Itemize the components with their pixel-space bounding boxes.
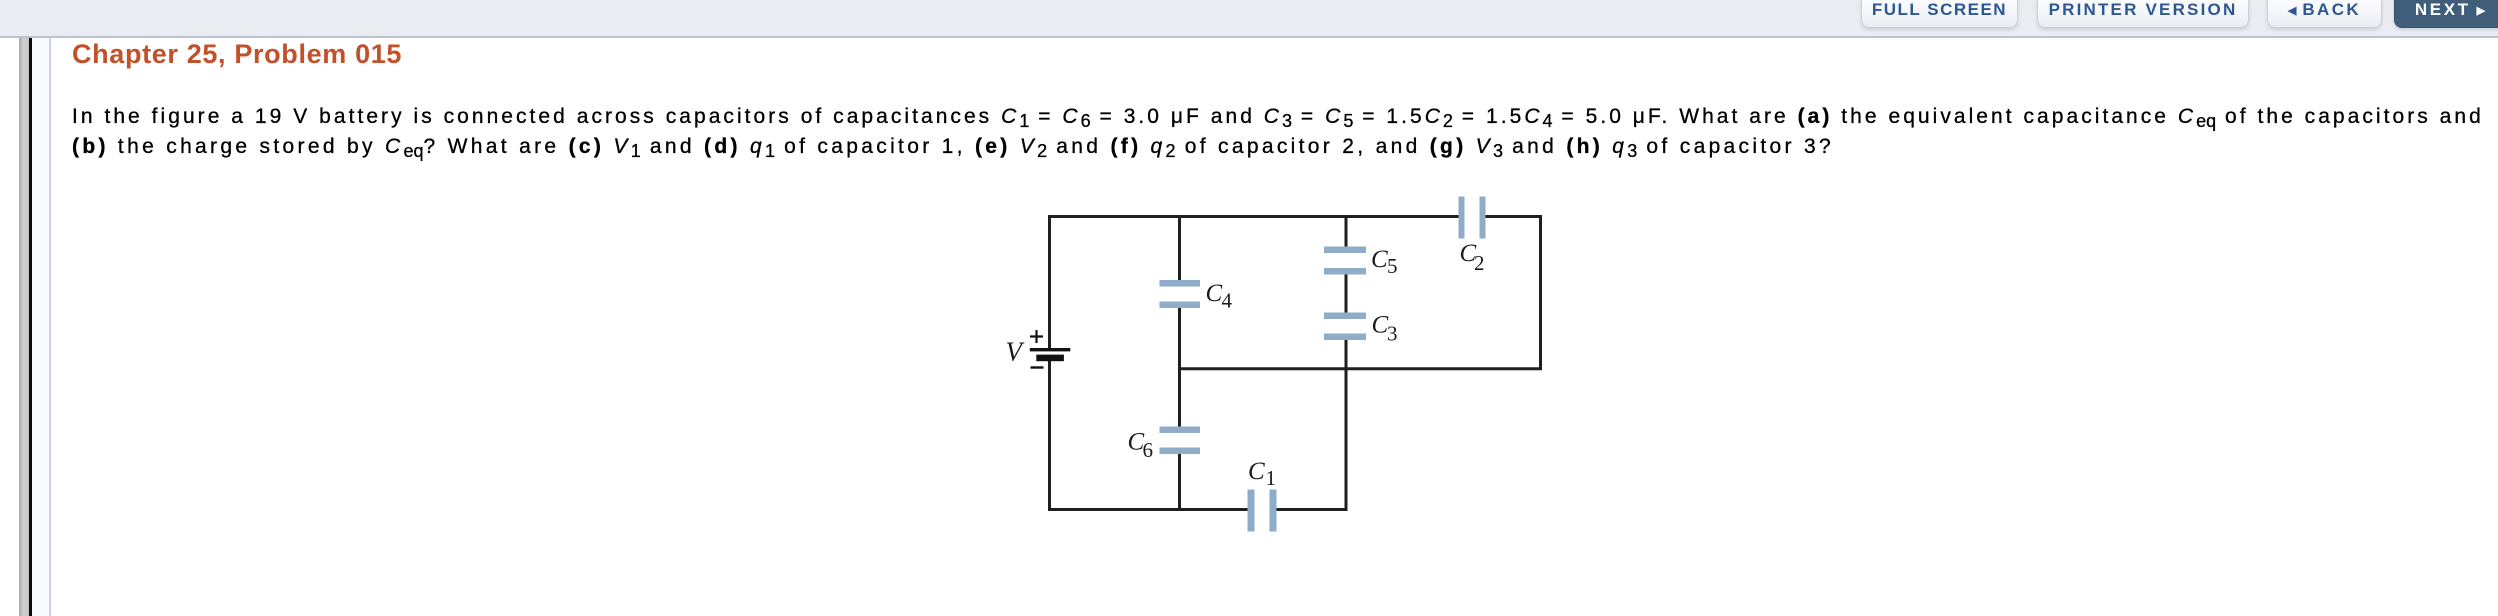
label C1 (1248, 458, 1276, 490)
capacitor C2 plates (1459, 197, 1486, 239)
heading (72, 39, 402, 70)
wire: left vertical above battery (1048, 215, 1051, 349)
battery V (1030, 330, 1071, 368)
capacitor C6 plates (1160, 427, 1201, 455)
svg-text:2: 2 (1474, 251, 1485, 275)
capacitor C1 plates (1248, 490, 1277, 532)
svg-text:4: 4 (1222, 289, 1233, 313)
button BACK (2267, 0, 2382, 28)
wire: third vertical between C5 and C3 (1345, 274, 1348, 313)
svg-text:C: C (1371, 246, 1388, 273)
button PRINTER VERSION (2037, 0, 2249, 28)
svg-text:5: 5 (1387, 254, 1398, 278)
left frame: gray bar (19, 38, 29, 616)
capacitor C4 plates (1160, 280, 1201, 308)
label C6 (1128, 428, 1154, 462)
wire: bottom horizontal left of C1 (1048, 508, 1248, 511)
wire: third vertical above C5 (1345, 215, 1348, 247)
label C2 (1460, 240, 1485, 275)
svg-text:C: C (1206, 280, 1223, 307)
label C3 (1372, 312, 1398, 346)
wire: middle horizontal (1178, 367, 1542, 370)
capacitor C5 plates (1324, 247, 1366, 275)
capacitor C3 plates (1324, 313, 1366, 341)
wire: second vertical bottom segment (below C6) (1178, 454, 1181, 512)
svg-text:V: V (1006, 336, 1026, 366)
svg-text:C: C (1372, 312, 1389, 339)
svg-text:C: C (1248, 458, 1265, 485)
top toolbar (0, 0, 2498, 38)
wire: top horizontal left of C2 (1048, 215, 1459, 218)
wire: top horizontal right of C2 (1485, 215, 1542, 218)
button NEXT (2394, 0, 2498, 28)
svg-text:1: 1 (1266, 466, 1277, 490)
wire: right vertical (1539, 215, 1542, 370)
button FULL SCREEN (1861, 0, 2018, 28)
wire: second vertical top segment (above C4) (1178, 215, 1181, 281)
wire: third vertical below C3 to bottom (1345, 340, 1348, 512)
left frame: pale strip (32, 38, 49, 616)
wire: second vertical middle segment (C4 to C6) (1178, 307, 1181, 427)
label C4 (1206, 280, 1233, 313)
svg-text:3: 3 (1387, 322, 1398, 346)
wire: bottom horizontal right of C1 (1276, 508, 1348, 511)
wire: left vertical below battery (1048, 358, 1051, 511)
problem text (72, 102, 2484, 162)
label C5 (1371, 246, 1398, 278)
left frame: faint blue line (49, 38, 51, 616)
left frame: black line (29, 38, 32, 616)
svg-text:6: 6 (1143, 438, 1154, 462)
